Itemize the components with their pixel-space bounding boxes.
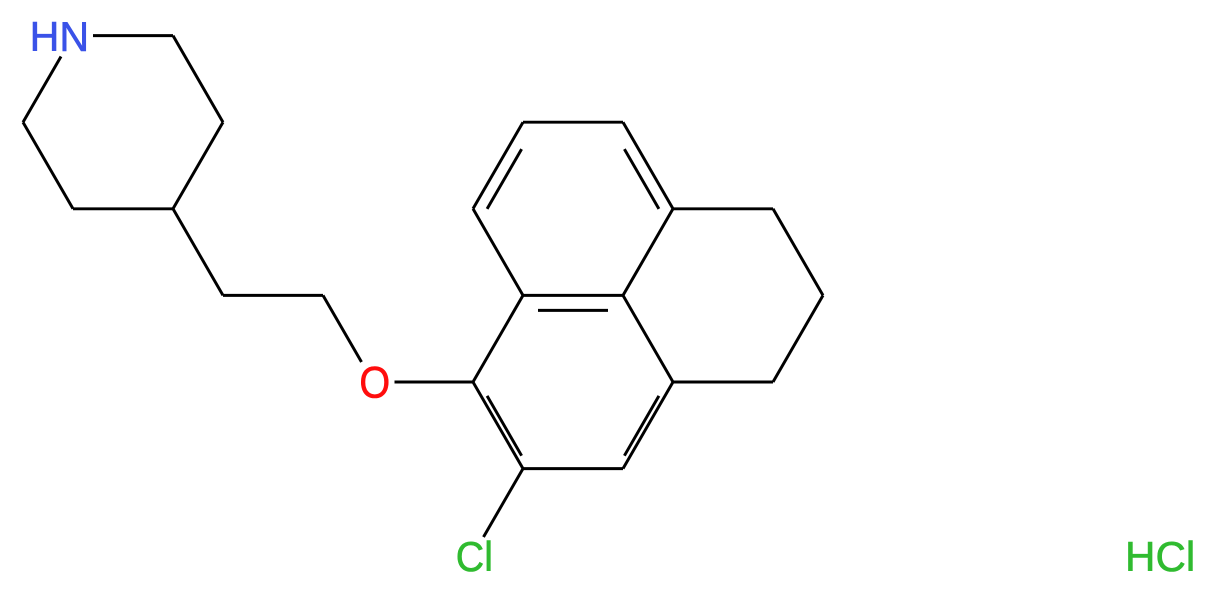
bond CH2-C5ar ring3 top bbox=[673, 207, 773, 210]
bond C6ar-C7ar ring2 top bbox=[523, 121, 623, 124]
bond C4a=C8a inner double line bbox=[538, 309, 608, 312]
svg-text:Cl: Cl bbox=[456, 533, 493, 580]
bond CH2b-O ether bbox=[323, 295, 362, 362]
bond CH2a-CH2b ethyl linker bbox=[223, 294, 323, 297]
bond N-C2 piperidine top edge bbox=[93, 34, 173, 37]
bond C5ar-C6ar ring2 bbox=[623, 122, 673, 209]
bond C4-CH2a ethyl linker bbox=[173, 209, 223, 296]
bond C3ar-C4ar ring1 bbox=[623, 382, 673, 469]
bond C5-C6 piperidine bbox=[23, 122, 73, 209]
bond C7ar-C8ar ring2 bbox=[473, 122, 523, 209]
bond C3-C4 piperidine bbox=[173, 122, 223, 209]
bond C6-N piperidine bbox=[23, 57, 61, 123]
bond C7ar=C8ar inner double line bbox=[487, 149, 521, 209]
bond C4ar-C4a ring1 bbox=[623, 295, 673, 382]
bond O-C1 aryl ether bbox=[395, 381, 474, 384]
bond C1=C2ar inner double line bbox=[487, 396, 521, 456]
svg-text:HCl: HCl bbox=[1125, 533, 1195, 580]
bond C3ar=C4ar inner double line bbox=[624, 396, 659, 456]
bond C8a-C1 ring1 bbox=[473, 295, 523, 382]
bond C4a-C8a ring fusion bond bbox=[523, 294, 623, 297]
bond C2ar-Cl bbox=[484, 469, 524, 537]
svg-text:HN: HN bbox=[30, 13, 90, 60]
bond C8ar-C8a ring2 bbox=[473, 209, 523, 296]
bond CH2-CH2 ring3 right upper bbox=[773, 209, 823, 296]
bond C4-C5 piperidine bbox=[73, 207, 173, 210]
bond C2-C3 piperidine bbox=[173, 36, 223, 123]
bond C1-C2ar ring1 bbox=[473, 382, 523, 469]
bond C5ar=C6ar inner double line bbox=[624, 149, 659, 209]
svg-text:O: O bbox=[359, 359, 390, 408]
bond C4ar-CH2 ring3 bottom bbox=[673, 381, 773, 384]
bond C2ar-C3ar ring1 bottom bbox=[523, 467, 623, 470]
bond C4a-C5ar ring2 bbox=[623, 209, 673, 296]
bond CH2-CH2 ring3 right lower bbox=[773, 295, 823, 382]
